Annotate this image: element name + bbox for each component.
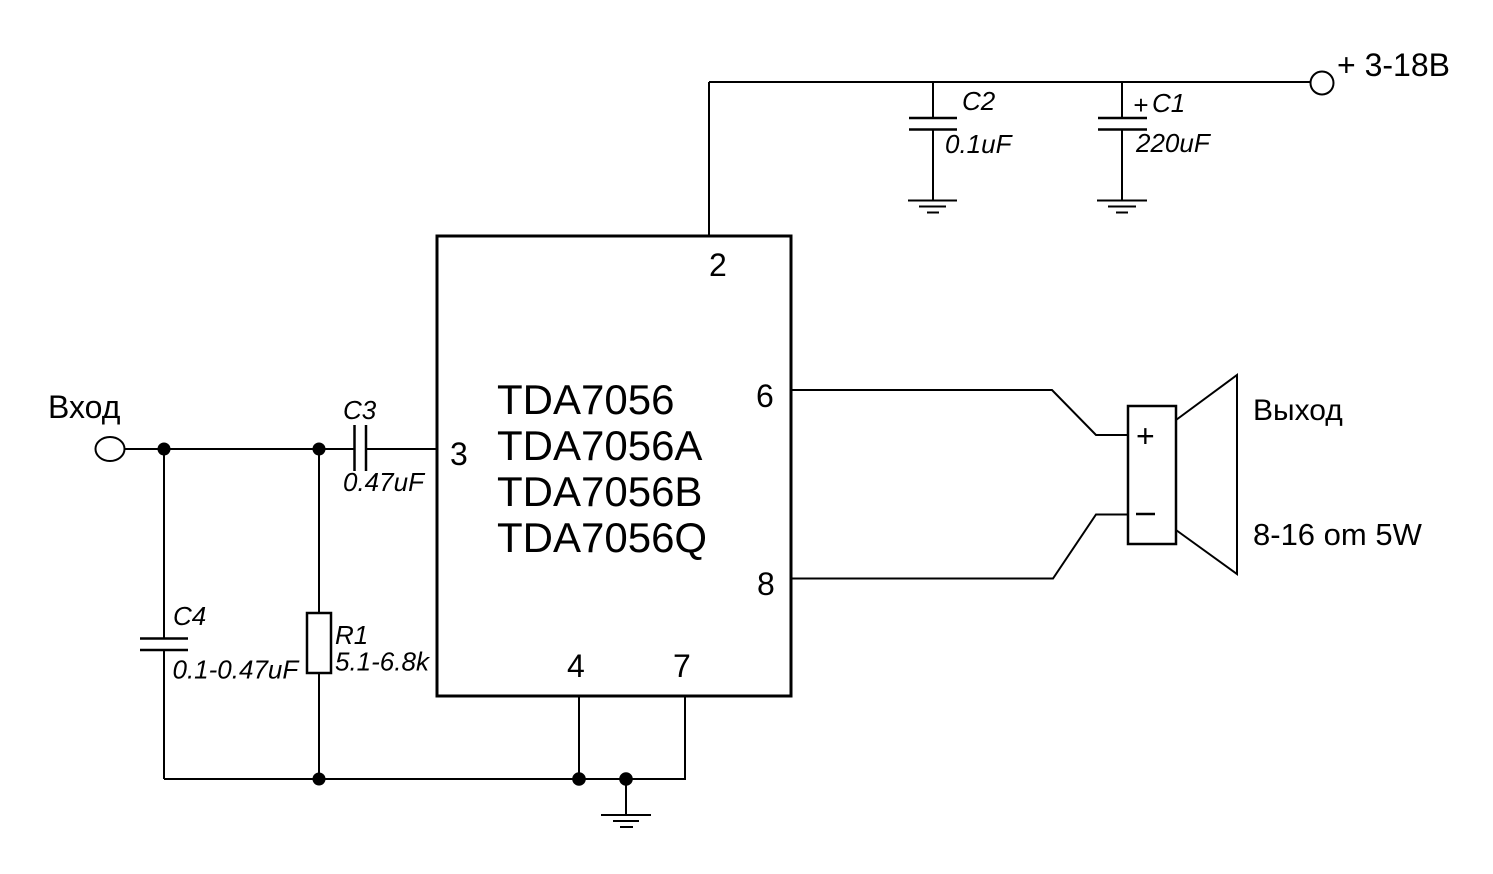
svg-text:220uF: 220uF [1135, 128, 1212, 158]
capacitor C3 [355, 425, 367, 471]
pin 2 [709, 247, 727, 283]
label 8-16 om 5W [1253, 517, 1423, 552]
svg-text:C1: C1 [1152, 88, 1185, 118]
pin 7 [673, 648, 691, 684]
node R1 bottom junction [313, 773, 326, 786]
wire pin 8 to speaker [791, 515, 1128, 579]
label Vyhod [1253, 394, 1343, 427]
value 220uF [1135, 128, 1212, 158]
speaker plus [1136, 418, 1155, 454]
svg-text:Выход: Выход [1253, 394, 1343, 427]
label Vhod [48, 389, 121, 425]
label R1 [335, 620, 368, 650]
node pin 4 junction [572, 772, 586, 786]
svg-text:8: 8 [757, 566, 775, 602]
ground C1 [1097, 201, 1147, 213]
svg-text:0.1-0.47uF: 0.1-0.47uF [173, 655, 301, 685]
speaker LS1 box [1128, 406, 1176, 544]
wire pin 6 to speaker [791, 390, 1128, 435]
wire input to C3 [125, 448, 354, 450]
value 0.47uF [343, 467, 426, 497]
label C4 [173, 601, 206, 631]
pin 8 [757, 566, 775, 602]
label + 3-18B [1337, 47, 1450, 83]
terminal + 3-18B [1311, 72, 1334, 95]
label C3 [343, 395, 377, 425]
pin 3 [450, 436, 468, 472]
resistor R1 [307, 449, 331, 779]
ground main [601, 779, 651, 827]
wire rail to pin 2 [708, 82, 710, 236]
node ground junction [619, 772, 633, 786]
ground C2 [908, 201, 957, 213]
node input junction [158, 443, 171, 456]
svg-text:5.1-6.8k: 5.1-6.8k [335, 647, 431, 677]
speaker minus [1136, 513, 1155, 516]
svg-text:6: 6 [756, 378, 774, 414]
svg-text:4: 4 [567, 648, 585, 684]
wire bottom ground rail [164, 778, 686, 780]
speaker cone [1176, 375, 1237, 574]
svg-text:TDA7056B: TDA7056B [497, 468, 702, 515]
svg-text:8-16 om 5W: 8-16 om 5W [1253, 517, 1423, 552]
IC U1 TDA7056 box [437, 236, 791, 696]
value 5.1-6.8k [335, 647, 431, 677]
node R1 top junction [313, 443, 326, 456]
value 0.1uF [945, 129, 1014, 159]
svg-text:TDA7056A: TDA7056A [497, 422, 702, 469]
svg-text:0.1uF: 0.1uF [945, 129, 1014, 159]
svg-text:3: 3 [450, 436, 468, 472]
terminal input [96, 437, 125, 461]
svg-text:+: + [1136, 418, 1155, 454]
svg-text:Вход: Вход [48, 389, 121, 425]
svg-text:R1: R1 [335, 620, 368, 650]
svg-text:C2: C2 [962, 86, 996, 116]
svg-text:TDA7056: TDA7056 [497, 376, 674, 423]
svg-text:7: 7 [673, 648, 691, 684]
wire C3 to pin 3 [367, 448, 437, 450]
wire pin 4 down [578, 696, 580, 779]
capacitor C1 [1098, 82, 1147, 200]
label C2 [962, 86, 996, 116]
value 0.1-0.47uF [173, 655, 301, 685]
svg-text:0.47uF: 0.47uF [343, 467, 426, 497]
svg-text:C4: C4 [173, 601, 206, 631]
svg-text:2: 2 [709, 247, 727, 283]
svg-text:TDA7056Q: TDA7056Q [497, 514, 707, 561]
pin 4 [567, 648, 585, 684]
svg-text:+: + [1133, 90, 1148, 120]
wire power rail [709, 81, 1311, 83]
svg-text:+ 3-18В: + 3-18В [1337, 47, 1450, 83]
capacitor C2 [909, 82, 957, 200]
label + C1 [1133, 88, 1185, 120]
wire pin 7 down [684, 696, 686, 780]
svg-text:C3: C3 [343, 395, 377, 425]
capacitor C4 [140, 449, 188, 779]
pin 6 [756, 378, 774, 414]
